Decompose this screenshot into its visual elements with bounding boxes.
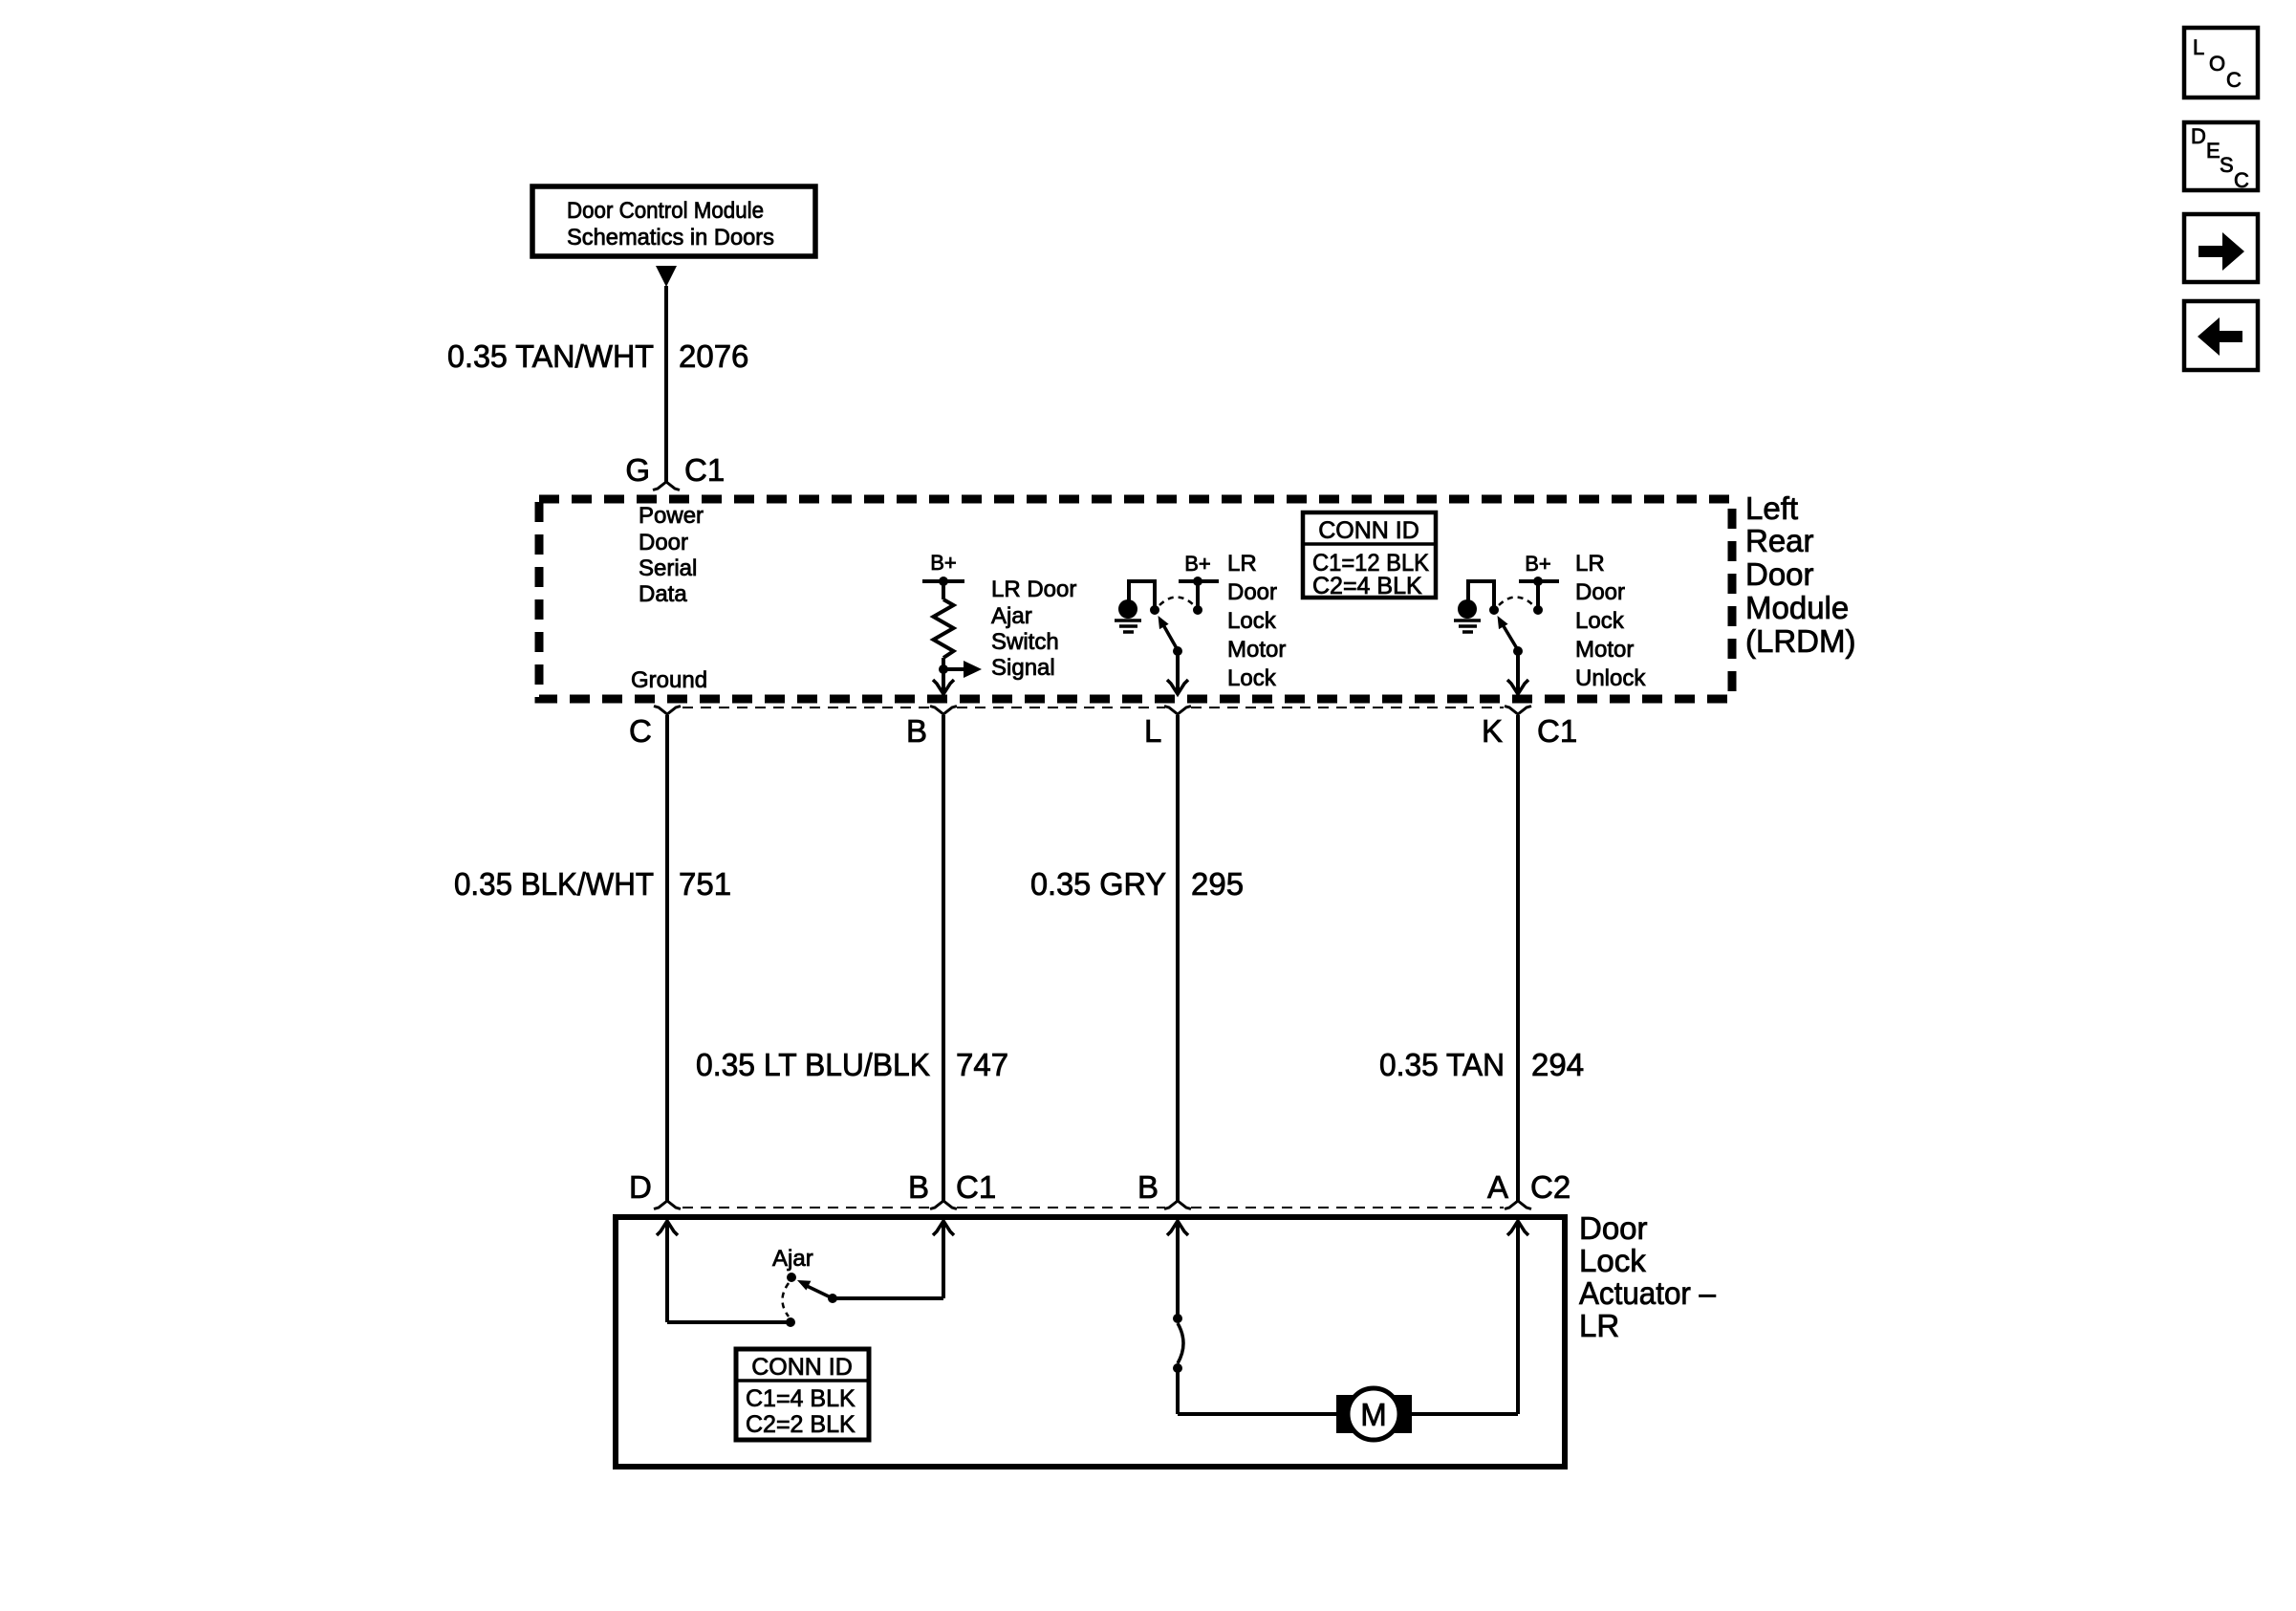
terminal at pin D	[654, 1201, 681, 1209]
wire: pin B to ajar switch common	[828, 1221, 943, 1303]
svg-text:B+: B+	[1525, 552, 1551, 576]
svg-text:B+: B+	[930, 551, 957, 575]
wire: ajar signal B to B	[942, 715, 945, 1201]
label: LR Door Ajar Switch Signal	[991, 577, 1076, 681]
svg-text:C2: C2	[1530, 1169, 1570, 1205]
pivot node	[1150, 605, 1159, 615]
svg-text:Module: Module	[1745, 590, 1849, 625]
svg-text:C1=4 BLK: C1=4 BLK	[746, 1385, 856, 1412]
svg-text:Lock: Lock	[1227, 608, 1277, 634]
svg-text:2076: 2076	[679, 338, 748, 374]
terminal at actuator motor pin B	[1164, 1201, 1191, 1209]
ajar switch	[772, 1246, 831, 1317]
throw arc (dashed)	[1159, 598, 1194, 606]
entry arrow pin A motor	[1507, 1221, 1528, 1235]
motor switch contacts	[1173, 1314, 1183, 1373]
svg-text:C: C	[2234, 168, 2249, 192]
svg-text:Lock: Lock	[1579, 1243, 1646, 1278]
svg-text:294: 294	[1531, 1047, 1584, 1082]
svg-text:C: C	[629, 713, 652, 749]
svg-text:B: B	[1137, 1169, 1159, 1205]
wire: switch to motor	[1178, 1371, 1338, 1414]
module label: Left Rear Door Module (LRDM)	[1745, 490, 1855, 659]
svg-text:L: L	[2193, 35, 2204, 59]
svg-text:D: D	[629, 1169, 652, 1205]
svg-text:Lock: Lock	[1227, 665, 1277, 691]
label: LR Door Lock Motor Unlock	[1575, 551, 1646, 691]
lock driver switch (lock)	[1115, 552, 1219, 694]
ground dot	[1118, 599, 1137, 619]
svg-text:B: B	[906, 713, 927, 749]
wire to pin K	[1516, 651, 1520, 691]
svg-text:Motor: Motor	[1227, 637, 1286, 663]
pin function: Power Door Serial Data	[639, 503, 704, 607]
terminal at pin C	[654, 707, 681, 715]
connector terminal at G	[653, 482, 680, 490]
B+ supply for ajar switch resistor	[922, 551, 964, 586]
svg-text:O: O	[2209, 52, 2225, 76]
off-page arrow (filled triangle)	[656, 266, 677, 287]
svg-text:Switch: Switch	[991, 629, 1059, 655]
svg-text:Ajar: Ajar	[991, 603, 1032, 629]
svg-text:LR Door: LR Door	[991, 577, 1076, 602]
svg-text:Door: Door	[1575, 579, 1625, 605]
svg-text:747: 747	[956, 1047, 1008, 1082]
svg-text:Power: Power	[639, 503, 704, 529]
svg-text:S: S	[2220, 153, 2234, 177]
svg-text:LR: LR	[1227, 551, 1257, 577]
connector body line (thin dashed)	[682, 1207, 1504, 1208]
svg-text:C2=2 BLK: C2=2 BLK	[746, 1411, 856, 1438]
svg-text:Door: Door	[1745, 556, 1814, 592]
switch arm	[1501, 621, 1518, 650]
svg-text:Data: Data	[639, 581, 687, 607]
signal tap arrow	[943, 661, 982, 678]
svg-text:Signal: Signal	[991, 655, 1055, 681]
terminal at pin A	[1505, 1201, 1531, 1209]
ground symbol	[1454, 619, 1481, 622]
svg-text:295: 295	[1191, 866, 1244, 902]
svg-text:B: B	[908, 1169, 929, 1205]
svg-text:L: L	[1144, 713, 1161, 749]
nav button DESC	[2184, 122, 2258, 192]
svg-text:Serial: Serial	[639, 555, 697, 581]
pivot node	[1489, 605, 1499, 615]
svg-text:Door: Door	[1227, 579, 1277, 605]
svg-text:K: K	[1482, 713, 1503, 749]
svg-text:CONN ID: CONN ID	[1318, 517, 1419, 544]
svg-text:Rear: Rear	[1745, 523, 1814, 558]
svg-text:A: A	[1487, 1169, 1508, 1205]
svg-text:C1: C1	[684, 452, 725, 488]
connector body line (thin dashed)	[682, 707, 1504, 708]
wire: pin D to ajar switch contact	[667, 1221, 795, 1327]
svg-text:Door: Door	[639, 530, 688, 555]
svg-text:Left: Left	[1745, 490, 1798, 526]
terminal at pin L	[1164, 707, 1191, 715]
svg-text:Actuator –: Actuator –	[1579, 1275, 1717, 1311]
svg-text:Door Control Module: Door Control Module	[567, 198, 764, 224]
terminal at pin K	[1505, 707, 1531, 715]
terminal at pin B	[930, 707, 957, 715]
CONN ID table (module connectors)	[1303, 512, 1436, 599]
svg-text:E: E	[2206, 139, 2220, 163]
svg-text:Lock: Lock	[1575, 608, 1625, 634]
svg-text:0.35 BLK/WHT: 0.35 BLK/WHT	[454, 866, 654, 902]
svg-text:C: C	[2226, 68, 2242, 92]
nav button LOC	[2184, 28, 2258, 98]
svg-text:0.35 TAN: 0.35 TAN	[1379, 1047, 1505, 1082]
nav button next (right arrow)	[2184, 214, 2258, 282]
svg-text:C1: C1	[956, 1169, 996, 1205]
actuator label	[1579, 1210, 1717, 1343]
CONN ID table (actuator connectors)	[736, 1349, 869, 1440]
reference box: Door Control Module Schematics in Doors	[532, 186, 815, 256]
svg-text:Door: Door	[1579, 1210, 1648, 1246]
nav button back (left arrow)	[2184, 301, 2258, 370]
svg-text:(LRDM): (LRDM)	[1745, 623, 1855, 659]
svg-text:0.35 LT BLU/BLK: 0.35 LT BLU/BLK	[696, 1047, 930, 1082]
switch arm	[1161, 621, 1178, 650]
ground symbol	[1115, 619, 1141, 622]
wire: unlock K to A	[1516, 715, 1520, 1201]
svg-text:M: M	[1360, 1397, 1387, 1432]
svg-text:CONN ID: CONN ID	[751, 1354, 853, 1381]
wire: lock L to B	[1176, 715, 1180, 1201]
unlock driver switch	[1454, 552, 1559, 694]
wire: pin B to motor switch	[1176, 1221, 1180, 1316]
svg-text:0.35 GRY: 0.35 GRY	[1030, 866, 1166, 902]
svg-text:Motor: Motor	[1575, 637, 1634, 663]
wire: serial data from reference box to module pin G	[664, 286, 668, 482]
svg-text:D: D	[2191, 124, 2206, 148]
svg-text:LR: LR	[1575, 551, 1605, 577]
wire: ground C to D	[665, 715, 669, 1201]
entry arrow pin B motor	[1167, 1221, 1188, 1235]
throw arc (dashed)	[1499, 598, 1533, 606]
wire: ajar signal to pin B	[942, 669, 945, 691]
label: LR Door Lock Motor Lock	[1227, 551, 1286, 691]
wire: motor to pin A	[1410, 1221, 1518, 1414]
svg-text:Ajar: Ajar	[772, 1246, 813, 1272]
svg-text:751: 751	[679, 866, 731, 902]
node: ajar signal junction	[939, 664, 948, 674]
entry arrow pin B ajar	[933, 1221, 954, 1235]
svg-text:C2=4 BLK: C2=4 BLK	[1312, 573, 1422, 599]
ground dot	[1458, 599, 1477, 619]
svg-text:Unlock: Unlock	[1575, 665, 1646, 691]
svg-text:Schematics in Doors: Schematics in Doors	[567, 225, 774, 250]
svg-text:G: G	[625, 452, 650, 488]
motor M	[1336, 1388, 1412, 1440]
svg-text:LR: LR	[1579, 1308, 1619, 1343]
actuator box: Door Lock Actuator - LR	[616, 1217, 1565, 1467]
svg-text:0.35 TAN/WHT: 0.35 TAN/WHT	[447, 338, 654, 374]
svg-text:Ground: Ground	[631, 667, 707, 693]
wire to pin L	[1176, 651, 1180, 691]
svg-text:C1: C1	[1537, 713, 1577, 749]
resistor (door ajar pull-up)	[934, 581, 954, 669]
terminal at actuator pin B	[930, 1201, 957, 1209]
module box: Left Rear Door Module (dashed)	[539, 499, 1732, 699]
entry arrow pin D	[657, 1221, 678, 1235]
svg-text:B+: B+	[1184, 552, 1211, 576]
